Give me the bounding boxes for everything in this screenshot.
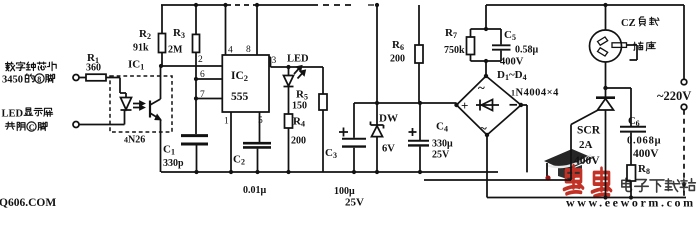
svg-text:~220V: ~220V xyxy=(657,89,691,103)
svg-text:LED: LED xyxy=(287,54,309,65)
wire pin8 xyxy=(256,5,258,55)
svg-text:25V: 25V xyxy=(345,197,364,209)
svg-text:8: 8 xyxy=(37,75,41,84)
watermark graduation-cap logo xyxy=(544,149,593,181)
svg-text:~: ~ xyxy=(480,121,487,136)
wire mains neutral (dashed) xyxy=(683,110,685,198)
wire gate return xyxy=(424,179,571,181)
watermark text 虫虫 (red) xyxy=(564,166,611,197)
terminal T2 (LED panel common cathode) xyxy=(73,122,79,128)
wire pin1 xyxy=(230,112,232,172)
node dots left circuit xyxy=(159,64,163,68)
wire pin6 xyxy=(196,78,222,80)
svg-text:0.068μ: 0.068μ xyxy=(627,136,661,147)
op-amp U2 555 box xyxy=(222,55,269,112)
wire bridge minus drop xyxy=(521,105,527,172)
node dot SCR cathode xyxy=(603,86,607,90)
socket CZ xyxy=(605,5,607,30)
optocoupler U1 4N26 dashed box xyxy=(110,76,172,132)
svg-text:0.01μ: 0.01μ xyxy=(243,185,267,196)
svg-text:200: 200 xyxy=(390,54,405,65)
opto LED xyxy=(120,78,126,98)
watermark text 电子下载站 (dark gray) xyxy=(622,178,696,192)
capacitor C2 xyxy=(259,112,261,142)
svg-text:8: 8 xyxy=(246,45,251,55)
resistor R2 xyxy=(161,5,163,34)
resistor R8 xyxy=(627,165,636,181)
svg-text:~: ~ xyxy=(478,80,485,95)
node dots bridge xyxy=(454,103,458,107)
svg-text:6V: 6V xyxy=(382,144,395,155)
svg-text:400V: 400V xyxy=(633,148,659,160)
svg-text:DW: DW xyxy=(379,113,398,125)
svg-text:1: 1 xyxy=(224,117,229,127)
svg-text:2A: 2A xyxy=(579,139,593,151)
resistor R4 xyxy=(285,114,293,128)
terminal 220V lower xyxy=(681,104,687,110)
svg-text:91k: 91k xyxy=(133,43,149,54)
svg-text:2M: 2M xyxy=(168,45,183,56)
capacitor C6 xyxy=(606,88,632,126)
capacitor C1 xyxy=(181,134,208,137)
resistor R5 xyxy=(322,67,324,94)
node dots top rail xyxy=(194,3,198,7)
svg-text:1N4004×4: 1N4004×4 xyxy=(511,88,559,99)
label chazuo xyxy=(633,42,655,51)
svg-text:3: 3 xyxy=(272,56,277,66)
capacitor C5 xyxy=(471,5,502,76)
wire pin3 output xyxy=(269,57,323,67)
capacitor C3 xyxy=(353,103,355,138)
svg-text:0.58μ: 0.58μ xyxy=(515,45,539,56)
svg-text:D1~D4: D1~D4 xyxy=(497,69,527,82)
wire bottom AC rail xyxy=(487,135,686,198)
terminal T1 (clock chip pin) xyxy=(73,75,79,81)
svg-text:3450: 3450 xyxy=(2,75,23,86)
svg-text:5: 5 xyxy=(258,116,263,126)
svg-text:750k: 750k xyxy=(444,45,465,56)
node A : +6V node wire xyxy=(354,102,457,104)
transistor Q1 SCR xyxy=(596,96,615,99)
svg-text:6: 6 xyxy=(200,70,205,80)
svg-text:25V: 25V xyxy=(432,150,450,161)
svg-text:100μ: 100μ xyxy=(334,186,355,197)
wire Vcc top rail xyxy=(161,4,226,6)
resistor R1 xyxy=(79,77,86,79)
svg-text:4N26: 4N26 xyxy=(124,135,145,146)
svg-text:7: 7 xyxy=(200,90,205,100)
svg-text:330μ: 330μ xyxy=(432,139,453,150)
capacitor C4 xyxy=(419,103,421,140)
zener DW xyxy=(376,5,378,125)
svg-text:330p: 330p xyxy=(163,158,184,169)
wire mains top rail xyxy=(486,4,684,6)
opto phototransistor xyxy=(149,101,151,118)
svg-text:Q606.COM: Q606.COM xyxy=(0,197,56,209)
svg-text:360: 360 xyxy=(86,63,101,74)
svg-text:+: + xyxy=(461,98,468,113)
svg-text:SCR: SCR xyxy=(577,125,601,137)
svg-text:400V: 400V xyxy=(574,155,600,167)
wire pin7 xyxy=(196,98,222,100)
resistor R6 xyxy=(418,5,420,45)
wire 220V riser xyxy=(683,5,685,79)
svg-text:400V: 400V xyxy=(500,57,524,68)
resistor R3 xyxy=(195,5,197,34)
svg-text:200: 200 xyxy=(291,136,306,147)
node dots ground rail xyxy=(194,170,198,174)
svg-text:CZ: CZ xyxy=(621,18,636,29)
node dots 6V node xyxy=(375,101,379,105)
svg-text:LED: LED xyxy=(2,109,24,120)
bridge rectifier D1-D4 xyxy=(457,76,522,135)
label digital clock chip text xyxy=(6,62,57,71)
terminal 220V upper xyxy=(681,79,687,85)
svg-text:150: 150 xyxy=(292,101,307,112)
svg-text:555: 555 xyxy=(231,91,249,103)
wire ground rail xyxy=(161,171,498,173)
LED indicator D5 xyxy=(288,67,290,76)
svg-text:4: 4 xyxy=(228,46,233,56)
svg-text:C: C xyxy=(29,123,35,132)
wire pin2 xyxy=(161,65,222,67)
node dots dropper xyxy=(484,27,488,31)
wire pin4 xyxy=(225,5,227,55)
node dots bottom rail xyxy=(603,195,607,199)
svg-text:2: 2 xyxy=(198,55,203,65)
resistor R7 xyxy=(470,29,472,37)
